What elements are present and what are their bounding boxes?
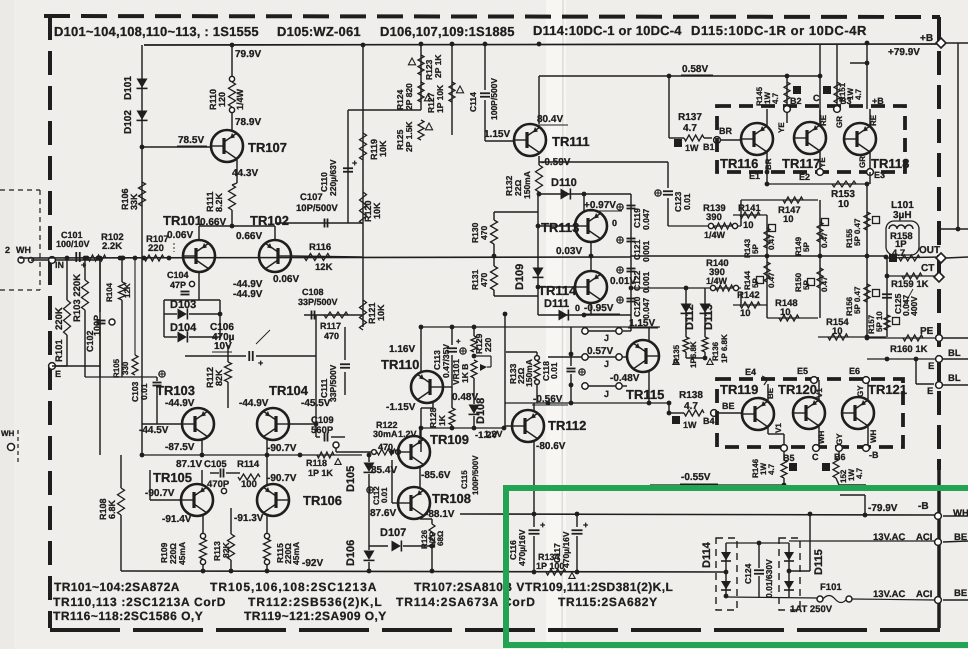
label ACI 2 — [916, 589, 932, 600]
label +0.97V — [583, 200, 622, 211]
svg-text:100/10V: 100/10V — [56, 239, 90, 249]
svg-text:82K: 82K — [221, 542, 231, 558]
label -85.6V — [421, 470, 451, 481]
diode D115 a — [784, 552, 794, 561]
title D105 — [277, 24, 361, 39]
node B6 — [834, 445, 846, 462]
resistor R160 — [903, 335, 923, 341]
capacitor C105 — [210, 469, 240, 478]
label R147 10 — [778, 205, 801, 225]
label D103 — [170, 299, 196, 311]
svg-text:TR116: TR116 — [720, 156, 758, 171]
wire main vertical x538 — [537, 194, 539, 315]
svg-text:-0.56V: -0.56V — [533, 394, 563, 405]
svg-text:TR105: TR105 — [153, 470, 192, 485]
label 78.5V — [177, 135, 207, 146]
svg-text:6.8K: 6.8K — [107, 499, 117, 519]
label B1 — [703, 142, 715, 152]
node rail x474 — [472, 325, 477, 330]
wire OUT to edge — [946, 257, 968, 258]
svg-text:R137: R137 — [678, 112, 702, 123]
wire TR120 emitter — [818, 426, 820, 448]
svg-text:J: J — [604, 359, 609, 369]
label -0.95V — [575, 303, 620, 314]
diode D104 — [178, 332, 188, 343]
label C101 100/10V — [56, 230, 90, 249]
svg-text:0.66V: 0.66V — [236, 231, 262, 242]
wire C107 row — [275, 222, 362, 224]
svg-text:R159 1K: R159 1K — [891, 279, 929, 290]
label C124 — [743, 563, 753, 584]
svg-text:1K B: 1K B — [460, 364, 470, 383]
wire TR109 collector — [419, 428, 421, 439]
wire -79.9V rail — [460, 514, 936, 515]
svg-text:PE: PE — [920, 326, 934, 337]
diode D105 — [364, 453, 375, 550]
label R152 1W 4.7 — [839, 467, 864, 483]
svg-text:150mA: 150mA — [524, 359, 534, 387]
svg-text:TR103: TR103 — [156, 383, 195, 398]
label R106 33K — [120, 188, 139, 210]
svg-text:D115:10DC-1R or 10DC-4R: D115:10DC-1R or 10DC-4R — [691, 23, 867, 38]
svg-text:+: + — [258, 358, 263, 368]
svg-text:10: 10 — [780, 307, 791, 318]
svg-text:B4: B4 — [703, 416, 715, 426]
label C108 33P/500V — [298, 287, 338, 307]
svg-text:10K: 10K — [378, 140, 388, 157]
svg-text:E: E — [927, 386, 933, 397]
wire vert x867 upper — [864, 184, 870, 256]
svg-text:D114: D114 — [701, 541, 713, 568]
wire fuse rail — [724, 594, 817, 599]
label -0.56V — [532, 394, 568, 405]
label 0.01V — [610, 276, 636, 287]
bottom list line2 TR115 — [558, 595, 658, 609]
svg-text:1/4W: 1/4W — [235, 88, 245, 110]
bottom list line1 TR107 — [414, 580, 525, 594]
label B3 — [840, 96, 852, 106]
wire D114 top row — [726, 541, 789, 546]
resistor R129 220 — [471, 333, 493, 354]
capacitor C116 — [529, 514, 546, 572]
wire TR111 base — [485, 140, 514, 142]
wire TR117 emitter E2 — [817, 151, 824, 175]
wire R110 to TR107 — [231, 112, 233, 131]
wire vert x820 upper — [817, 200, 823, 256]
svg-text:220K: 220K — [54, 307, 65, 330]
wire TR109 emitter to TR108 — [419, 466, 421, 487]
svg-text:4.7: 4.7 — [683, 123, 697, 134]
node rail x865 — [863, 513, 868, 518]
label TR104 — [269, 383, 309, 398]
svg-text:4.7: 4.7 — [854, 88, 863, 100]
label D109 — [514, 264, 526, 290]
svg-text:150mA: 150mA — [522, 171, 532, 199]
input jack — [18, 257, 34, 263]
svg-text:1P 10K: 1P 10K — [435, 84, 445, 113]
label C106 470u 10V — [210, 322, 270, 352]
label TR118 — [871, 156, 909, 171]
wire fuse to border — [852, 599, 935, 600]
transistor TR115 — [627, 340, 659, 372]
wire rail y327 — [419, 326, 660, 328]
diode box D115 (dashed) — [779, 538, 800, 610]
wire rail y455 — [140, 453, 362, 458]
label -88.1V — [425, 509, 455, 520]
wire color code RE b — [869, 114, 878, 126]
label D114 — [701, 541, 713, 568]
transistor TR102 — [259, 240, 291, 272]
label C107 10P/500V — [296, 192, 338, 214]
label 0.48V — [452, 392, 478, 403]
label TR116 — [720, 156, 758, 171]
diode D114 b — [721, 581, 731, 590]
svg-text:220: 220 — [148, 243, 164, 254]
wire TR115 emitter — [647, 371, 652, 405]
svg-text:2: 2 — [5, 245, 10, 255]
wire R131 bottom — [494, 290, 538, 296]
label -44.9V TR103 — [165, 398, 195, 409]
wire B3 column — [834, 44, 841, 112]
svg-text:33K: 33K — [129, 193, 139, 210]
label 79.9V — [235, 49, 261, 60]
svg-text:+: + — [583, 520, 588, 530]
svg-text:E: E — [928, 361, 934, 372]
wire D115 column — [788, 543, 790, 597]
label R138 4.7 — [679, 390, 703, 412]
diode D110 — [561, 189, 571, 200]
wire mid rail right — [631, 255, 886, 257]
label C109 560P — [311, 415, 334, 436]
bottom list line2 TR114 — [396, 595, 536, 609]
svg-text:V1: V1 — [774, 423, 783, 433]
svg-text:220: 220 — [483, 338, 493, 352]
node C lower — [812, 445, 819, 462]
svg-text:J: J — [604, 333, 609, 343]
svg-text:10: 10 — [838, 199, 850, 210]
svg-text:10: 10 — [783, 214, 794, 225]
svg-text:TR117: TR117 — [782, 156, 820, 171]
wire WH to edge — [943, 515, 968, 517]
wire rail -92V — [121, 569, 724, 574]
wire R123 column — [420, 44, 422, 110]
page border top (dashed) — [44, 16, 940, 17]
svg-text:D109: D109 — [514, 264, 526, 290]
label C123 0.01 — [673, 191, 692, 212]
wire TR109 base — [398, 451, 399, 453]
label R124 2P 820 — [395, 83, 414, 110]
label CT — [921, 263, 934, 274]
wire vert x767 upper — [764, 215, 770, 256]
resistor R120 — [360, 192, 367, 224]
svg-text:TR104: TR104 — [269, 383, 309, 398]
svg-text:1K: 1K — [437, 414, 447, 426]
wire BE1 to edge — [943, 532, 968, 543]
driver box TR119-121 (dashed) — [717, 379, 903, 447]
wire bank y305 — [733, 304, 767, 306]
label R109 220ohm 45mA — [159, 542, 187, 565]
diode D107 — [369, 541, 432, 552]
resistor R132 — [536, 165, 543, 192]
svg-text:C: C — [812, 452, 819, 462]
capacitor C112 — [367, 486, 389, 505]
bottom list line2 TR110,113 — [53, 595, 226, 609]
svg-text:+B: +B — [872, 96, 884, 106]
label R156 5P 0.47 — [845, 286, 880, 316]
label 0.57V — [587, 346, 613, 357]
svg-text:0.01: 0.01 — [682, 193, 692, 210]
wire color code YE — [777, 122, 786, 133]
svg-text:BE: BE — [722, 401, 735, 411]
label -1.15V — [386, 402, 416, 413]
wire BL2 to edge — [943, 384, 968, 386]
svg-text:13V.AC: 13V.AC — [873, 589, 906, 600]
label C119 0.047 — [632, 208, 651, 230]
wire E bus lower — [52, 300, 157, 377]
svg-text:1.15V: 1.15V — [484, 129, 510, 140]
transistor TR106 — [257, 484, 289, 516]
label -0.55V — [680, 472, 718, 484]
svg-text:E2: E2 — [799, 172, 810, 182]
wire color WH rot2 — [869, 429, 878, 443]
svg-text:10: 10 — [832, 326, 843, 337]
svg-text:D101: D101 — [123, 76, 134, 100]
label R135 1P6.8K — [672, 341, 698, 368]
resistor R126 — [420, 519, 435, 571]
svg-text:+B: +B — [920, 33, 933, 44]
label -0.59V — [541, 157, 571, 168]
label C120 0.047 — [632, 296, 651, 319]
label -B rail — [918, 501, 929, 512]
svg-text:CT: CT — [921, 263, 934, 274]
svg-text:GY: GY — [856, 385, 865, 397]
svg-text:47P: 47P — [170, 280, 186, 290]
resistor R127 — [449, 82, 455, 102]
svg-text:-0.55V: -0.55V — [681, 472, 711, 483]
node OUT diamond — [936, 253, 946, 263]
label TR120 — [778, 382, 817, 397]
resistor R123 — [418, 55, 424, 75]
wire TR120 collector — [818, 380, 820, 400]
wire TR114 base — [536, 285, 576, 290]
label -1.2V — [475, 430, 498, 441]
node rail x421 — [419, 325, 424, 330]
svg-text:D103: D103 — [170, 299, 196, 311]
resistor R158 zig — [899, 255, 920, 261]
wire R140 row — [629, 285, 741, 290]
wire CT row — [887, 275, 936, 277]
wire TR105 collector — [201, 455, 203, 484]
svg-text:+: + — [540, 520, 545, 530]
svg-text:TR108: TR108 — [432, 491, 471, 506]
svg-text:J: J — [604, 389, 609, 399]
label R148 10 — [775, 298, 798, 318]
svg-text:F101: F101 — [820, 582, 842, 593]
svg-text:100P/500V: 100P/500V — [471, 455, 480, 495]
svg-text:5P: 5P — [751, 278, 760, 288]
svg-text:WH: WH — [953, 508, 968, 519]
capacitor column C119-C120 wire — [630, 194, 632, 315]
svg-text:87.1V: 87.1V — [176, 459, 202, 470]
svg-text:560P: 560P — [311, 425, 334, 436]
capacitor C124 — [754, 543, 764, 597]
svg-text:1/4W: 1/4W — [706, 276, 728, 286]
label TR109 — [430, 432, 469, 447]
svg-text:85.4V: 85.4V — [371, 465, 397, 476]
label R136 1P 6.8K — [707, 334, 729, 364]
wire TR102 base right — [291, 256, 362, 257]
label 0.06V TR101 — [167, 230, 193, 252]
svg-text:10: 10 — [743, 220, 754, 231]
capacitor C118 — [567, 327, 586, 403]
node D114 mid — [724, 570, 729, 575]
wire color code YE b — [818, 157, 827, 168]
wire rail y428 — [419, 426, 507, 431]
wire right vertical from +B — [941, 43, 968, 231]
svg-text:2P 820: 2P 820 — [404, 83, 414, 110]
label 44.3V — [232, 168, 258, 179]
wire J rows — [548, 331, 627, 357]
svg-text:WH: WH — [869, 429, 878, 443]
transistor TR117 — [794, 122, 826, 154]
wire R106 branch — [141, 147, 143, 258]
resistor R105 330 — [112, 258, 138, 378]
wire TR104 collector — [266, 440, 268, 455]
label R144 5P 0.47 — [743, 270, 776, 290]
svg-text:13V.AC: 13V.AC — [873, 532, 906, 543]
svg-text:80.4V: 80.4V — [537, 114, 563, 125]
label D101 — [123, 76, 134, 100]
label D110 — [551, 177, 577, 189]
label TR103 — [156, 383, 195, 398]
wire R110 top — [231, 45, 233, 77]
resistor R124 — [418, 82, 424, 102]
resistor R104 12K — [105, 282, 132, 302]
svg-text:TR110,113 :2SC1213A CorD: TR110,113 :2SC1213A CorD — [53, 595, 226, 609]
svg-text:470µ/16V: 470µ/16V — [517, 529, 527, 566]
label BL 1 — [948, 348, 961, 359]
wire TR114 emitter — [590, 303, 592, 315]
wire OUT rail — [886, 254, 941, 262]
label BE base TR119 — [722, 401, 735, 411]
label R115 220ohm 45mA — [275, 542, 301, 565]
svg-text:-90.7V: -90.7V — [267, 443, 297, 454]
node base TR107 — [140, 145, 145, 150]
svg-text:33P/500V: 33P/500V — [298, 297, 338, 307]
diode D115 b — [784, 581, 794, 590]
transistor TR108 — [398, 487, 430, 519]
wire TR121 emitter — [867, 426, 869, 448]
resistor R116 — [304, 254, 330, 261]
svg-text:R114: R114 — [237, 459, 260, 470]
label R159 1K — [891, 279, 929, 290]
label 85.4V — [371, 465, 397, 476]
resistor R154 — [828, 334, 848, 340]
svg-text:D104: D104 — [170, 322, 197, 334]
svg-text:D111: D111 — [544, 298, 569, 310]
wire color V1 rot2 — [774, 423, 783, 433]
label C110 220u/63V — [319, 159, 338, 196]
svg-text:45mA: 45mA — [291, 542, 301, 565]
wire TR110 base — [444, 386, 452, 388]
svg-text:TR107: TR107 — [248, 140, 287, 155]
resistor R137 — [669, 135, 712, 153]
node PE circle — [936, 335, 943, 342]
svg-text:TR105,106,108:2SC1213A: TR105,106,108:2SC1213A — [210, 580, 377, 594]
node D115 mid — [787, 569, 792, 574]
node top bus x485 — [483, 42, 488, 47]
svg-text:12K: 12K — [315, 262, 333, 273]
wire bank y215 — [733, 214, 767, 216]
wire rail to D114 — [724, 571, 726, 573]
label D113 — [703, 304, 715, 330]
svg-text:0.01: 0.01 — [380, 487, 389, 503]
svg-text:4.7: 4.7 — [771, 92, 780, 104]
label D102 — [123, 110, 134, 134]
wire x142 down — [141, 258, 143, 455]
svg-text:C114: C114 — [468, 92, 478, 112]
label R158 1P 4.7 — [890, 231, 913, 259]
label R145 1W 4.7 — [755, 86, 780, 106]
svg-text:1/4W: 1/4W — [704, 230, 726, 240]
transistor TR119 — [742, 398, 774, 430]
node E6 — [863, 377, 870, 384]
svg-text:C124: C124 — [743, 563, 753, 584]
svg-text:0: 0 — [575, 303, 580, 313]
resistor R108 6.8K — [98, 455, 125, 571]
svg-text:0.58V: 0.58V — [682, 64, 708, 75]
capacitor C122 — [617, 267, 636, 273]
terminal J row2 — [582, 354, 622, 369]
node top bus x232 — [230, 43, 235, 48]
svg-text:0.01: 0.01 — [549, 362, 559, 379]
svg-text:TR112:2SB536(2)K,L: TR112:2SB536(2)K,L — [248, 595, 383, 609]
svg-text:0.047: 0.047 — [641, 208, 651, 230]
diode D114 a — [721, 552, 731, 561]
capacitor C113 — [447, 337, 466, 354]
label B2 — [790, 96, 802, 106]
svg-text:C108: C108 — [302, 287, 324, 297]
wire TR117 collector — [819, 110, 821, 125]
label WH right — [953, 508, 968, 519]
svg-text:R118: R118 — [306, 458, 327, 468]
svg-text:5P 0.47: 5P 0.47 — [853, 286, 862, 314]
svg-text:1.15V: 1.15V — [629, 318, 655, 329]
svg-text:0.06V: 0.06V — [167, 230, 193, 241]
label D105 — [345, 466, 357, 492]
node B4 — [711, 410, 718, 417]
node IN on left bus — [49, 257, 64, 270]
svg-text:TR115:2SA682Y: TR115:2SA682Y — [558, 595, 658, 609]
label TR111 — [552, 134, 590, 149]
label C118 0.01 — [541, 361, 559, 381]
svg-text:-44.9V: -44.9V — [239, 398, 269, 409]
diode D101 — [137, 79, 148, 89]
bottom list line1 TR101-104 — [54, 580, 180, 594]
svg-text:10K: 10K — [372, 202, 382, 219]
node input bus x169 — [65, 256, 172, 261]
svg-text:D106,107,109:1S1885: D106,107,109:1S1885 — [380, 24, 515, 39]
resistor R112 82K — [205, 345, 232, 408]
label R134 1P 100 — [536, 552, 564, 571]
resistor R121 — [360, 300, 367, 330]
resistor R119 — [360, 133, 367, 160]
label C121 0.001 — [632, 239, 651, 262]
svg-text:B5: B5 — [783, 453, 795, 463]
svg-text:R135: R135 — [672, 344, 681, 364]
label C111 33P/500V — [319, 364, 338, 402]
svg-text:-0.95V: -0.95V — [584, 303, 614, 314]
